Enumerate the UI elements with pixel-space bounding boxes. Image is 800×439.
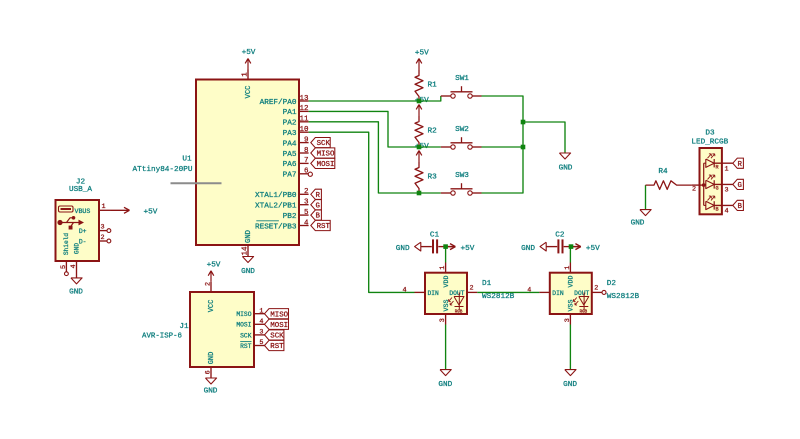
U1 pin 3 XTAL2/PB1 bbox=[255, 199, 309, 211]
svg-text:G: G bbox=[316, 202, 320, 210]
J2 pin 2 D- bbox=[79, 234, 111, 246]
U1 pin 6 PA7 bbox=[283, 168, 309, 180]
U1 pin 11 PA2 bbox=[283, 116, 309, 128]
svg-text:1: 1 bbox=[101, 203, 105, 211]
J1 pin 1 MISO bbox=[236, 307, 264, 318]
D1 pin 4 DIN bbox=[402, 286, 439, 297]
U1 pin 12 PA1 bbox=[283, 105, 309, 117]
chip U1 value ATtiny84-20PU bbox=[133, 166, 193, 174]
svg-text:B: B bbox=[738, 203, 743, 211]
svg-text:PA5: PA5 bbox=[283, 151, 297, 159]
D1 pin 3 VSS bbox=[439, 300, 450, 325]
svg-text:+5V: +5V bbox=[586, 245, 600, 253]
svg-text:+5V: +5V bbox=[207, 262, 221, 270]
svg-text:2: 2 bbox=[304, 188, 309, 196]
connector J1 body bbox=[190, 292, 254, 367]
junction C1 / VDD bbox=[443, 244, 448, 249]
svg-text:1: 1 bbox=[259, 307, 263, 315]
U1 pin 1 VCC bbox=[242, 70, 254, 99]
wire R1 node to SW1 (jog) bbox=[419, 96, 441, 101]
U1 pin 14 GND bbox=[242, 230, 254, 256]
power +5V right of C2 bbox=[571, 244, 600, 254]
J2 pin 5 Shield bbox=[60, 233, 70, 276]
J1 pin 5 RST bbox=[240, 339, 264, 350]
wire PA0 to R1 node bbox=[309, 100, 419, 102]
wire bus to GND bbox=[523, 122, 565, 153]
junction R3/PA2 node bbox=[417, 191, 422, 196]
svg-text:MOSI: MOSI bbox=[236, 322, 251, 329]
svg-text:DOUT: DOUT bbox=[574, 290, 589, 297]
svg-text:RST: RST bbox=[270, 343, 284, 351]
power +5V at U1 VCC bbox=[242, 49, 256, 70]
svg-text:D3: D3 bbox=[705, 129, 715, 137]
svg-text:PA4: PA4 bbox=[283, 140, 297, 148]
svg-text:3: 3 bbox=[304, 199, 309, 207]
D2 pin 2 DOUT bbox=[574, 285, 602, 297]
D1 pin 2 DOUT bbox=[449, 285, 477, 297]
wire R2 node to SW2 bbox=[419, 146, 441, 148]
J1 reference label bbox=[179, 323, 189, 331]
svg-text:1: 1 bbox=[724, 166, 728, 174]
svg-text:GND: GND bbox=[208, 352, 216, 365]
J2 value USB_A bbox=[69, 186, 92, 194]
D1 reference label bbox=[482, 280, 492, 288]
svg-text:D+: D+ bbox=[79, 228, 87, 235]
global label MOSI at J1 bbox=[265, 319, 289, 330]
svg-text:R: R bbox=[738, 161, 743, 169]
U1 pin 2 XTAL1/PB0 bbox=[255, 188, 309, 200]
svg-text:RST: RST bbox=[240, 343, 252, 350]
J1 pin 6 GND bbox=[205, 352, 217, 378]
svg-text:R: R bbox=[316, 192, 321, 200]
svg-text:MISO: MISO bbox=[317, 151, 335, 159]
svg-text:11: 11 bbox=[299, 116, 309, 124]
power +5V right of C1 bbox=[446, 244, 475, 254]
ground at U1 bbox=[241, 257, 255, 277]
svg-text:LED_RCGB: LED_RCGB bbox=[691, 139, 728, 147]
svg-text:R2: R2 bbox=[428, 127, 438, 135]
svg-text:2: 2 bbox=[469, 285, 473, 293]
switch SW1 bbox=[441, 75, 482, 98]
svg-text:+5V: +5V bbox=[242, 49, 256, 57]
wire VSS D2 to ground bbox=[569, 325, 571, 370]
svg-text:AREF/PA0: AREF/PA0 bbox=[260, 99, 297, 107]
wire VDD D1 bbox=[445, 247, 447, 263]
svg-text:VBUS: VBUS bbox=[75, 208, 91, 215]
svg-text:GND: GND bbox=[521, 245, 535, 253]
wire PA2 to R3 node bbox=[309, 122, 419, 193]
svg-text:6: 6 bbox=[205, 370, 213, 374]
svg-text:PB2: PB2 bbox=[283, 213, 297, 221]
svg-text:GND: GND bbox=[74, 243, 81, 254]
svg-text:AVR-ISP-6: AVR-ISP-6 bbox=[142, 332, 182, 340]
resistor R1 bbox=[415, 70, 437, 101]
D2 pin 1 VDD bbox=[564, 263, 575, 288]
svg-text:U1: U1 bbox=[182, 156, 192, 164]
svg-text:J1: J1 bbox=[179, 323, 189, 331]
svg-text:GND: GND bbox=[245, 230, 253, 243]
global label RST at J1 bbox=[265, 340, 285, 351]
D2 value WS2812B bbox=[607, 293, 640, 301]
power +5V above R2 bbox=[415, 97, 429, 116]
D3 reference label bbox=[705, 129, 715, 137]
global label MISO at J1 bbox=[265, 309, 289, 320]
svg-text:D1: D1 bbox=[482, 280, 492, 288]
global label G bbox=[311, 200, 322, 211]
wire C1 to +5V junction bbox=[438, 246, 452, 248]
ground label left of C2 bbox=[521, 242, 557, 253]
capacitor C2 bbox=[555, 231, 565, 253]
LED D2 body bbox=[550, 273, 592, 314]
svg-text:B: B bbox=[316, 213, 321, 221]
global label B at D3 bbox=[733, 200, 744, 211]
capacitor C1 bbox=[430, 231, 440, 253]
D1 LED icon bbox=[449, 293, 464, 315]
svg-text:DIN: DIN bbox=[552, 290, 564, 297]
USB plug icon bbox=[59, 206, 74, 212]
D2 reference label bbox=[607, 280, 617, 288]
wire D1 DOUT to D2 DIN bbox=[477, 291, 539, 293]
U1 pin 8 PA5 bbox=[283, 147, 309, 159]
svg-text:XTAL1/PB0: XTAL1/PB0 bbox=[255, 192, 297, 200]
svg-text:GND: GND bbox=[241, 268, 255, 276]
svg-text:GND: GND bbox=[438, 381, 452, 389]
D3 LED R bbox=[704, 154, 733, 174]
svg-text:SCK: SCK bbox=[270, 333, 284, 341]
svg-text:GND: GND bbox=[204, 388, 218, 396]
svg-text:MISO: MISO bbox=[236, 311, 251, 318]
svg-text:PA2: PA2 bbox=[283, 120, 297, 128]
D2 pin 4 DIN bbox=[527, 286, 564, 297]
svg-text:GND: GND bbox=[563, 381, 577, 389]
ground at R4 bbox=[631, 210, 652, 228]
global label MISO bbox=[311, 148, 335, 159]
global label SCK at J1 bbox=[265, 330, 285, 341]
no-connect circle pin 6 PA7 bbox=[308, 172, 312, 176]
svg-text:8: 8 bbox=[304, 147, 309, 155]
U1 pin 5 PB2 bbox=[283, 209, 309, 221]
svg-text:5: 5 bbox=[304, 209, 309, 217]
D2 LED icon bbox=[573, 293, 588, 315]
junction R1/PA0 node bbox=[417, 99, 422, 104]
switch SW3 bbox=[441, 172, 482, 195]
wire VSS D1 to ground bbox=[445, 325, 447, 370]
svg-text:MISO: MISO bbox=[270, 311, 288, 319]
svg-text:13: 13 bbox=[299, 95, 309, 103]
svg-text:G: G bbox=[715, 186, 718, 192]
svg-text:14: 14 bbox=[242, 246, 250, 256]
svg-text:SW1: SW1 bbox=[455, 75, 469, 83]
svg-text:4: 4 bbox=[259, 318, 263, 326]
svg-text:RST: RST bbox=[317, 223, 331, 231]
chip U1 reference label bbox=[182, 156, 192, 164]
wire VDD D2 bbox=[569, 247, 571, 263]
svg-text:D2: D2 bbox=[607, 280, 617, 288]
J2 pin 1 VBUS bbox=[75, 203, 112, 215]
svg-text:9: 9 bbox=[304, 136, 309, 144]
power +5V at VBUS bbox=[111, 207, 158, 216]
U1 pin 13 AREF/PA0 bbox=[260, 95, 309, 107]
LED D1 body bbox=[425, 273, 467, 314]
svg-text:2: 2 bbox=[100, 234, 104, 242]
J1 pin 3 SCK bbox=[240, 329, 264, 340]
svg-text:VCC: VCC bbox=[208, 300, 216, 313]
ground at D2 bbox=[563, 370, 577, 390]
svg-text:GND: GND bbox=[69, 288, 83, 296]
junction bus/SW2 bbox=[521, 145, 526, 150]
svg-text:PA3: PA3 bbox=[283, 130, 297, 138]
svg-text:+5V: +5V bbox=[461, 245, 475, 253]
junction C2 / VDD bbox=[569, 244, 574, 249]
svg-text:3: 3 bbox=[259, 329, 263, 337]
junction bus/GND tap bbox=[521, 120, 526, 125]
svg-text:SCK: SCK bbox=[317, 140, 331, 148]
svg-text:MOSI: MOSI bbox=[270, 322, 288, 330]
svg-text:RESET/PB3: RESET/PB3 bbox=[255, 223, 297, 231]
svg-text:2: 2 bbox=[692, 185, 696, 193]
ground at D1 bbox=[438, 370, 452, 390]
svg-text:G: G bbox=[738, 182, 742, 190]
LED D3 body bbox=[700, 148, 722, 214]
global label RST bbox=[311, 220, 331, 231]
svg-text:VDD: VDD bbox=[443, 276, 450, 288]
global label R bbox=[311, 189, 322, 200]
resistor R3 bbox=[415, 162, 437, 193]
ground label left of C1 bbox=[396, 242, 432, 253]
svg-text:Shield: Shield bbox=[63, 233, 70, 256]
svg-text:4: 4 bbox=[527, 286, 531, 294]
D3 value LED_RCGB bbox=[691, 139, 728, 147]
D1 value WS2812B bbox=[482, 293, 515, 301]
J2 pin 4 GND bbox=[70, 243, 81, 278]
resistor R2 bbox=[415, 116, 437, 147]
global label B bbox=[311, 210, 322, 221]
svg-text:1: 1 bbox=[242, 72, 250, 77]
switch SW2 bbox=[441, 126, 482, 149]
global label G at D3 bbox=[733, 179, 744, 190]
global label SCK bbox=[311, 138, 331, 149]
svg-text:3: 3 bbox=[100, 223, 104, 231]
ground at J2 bbox=[69, 278, 83, 297]
wire C2 to +5V junction bbox=[564, 246, 578, 248]
svg-text:7: 7 bbox=[304, 157, 309, 165]
svg-text:2: 2 bbox=[205, 282, 213, 286]
svg-text:+5V: +5V bbox=[144, 209, 158, 217]
svg-text:DOUT: DOUT bbox=[449, 290, 464, 297]
wire PA1 to R2 node bbox=[309, 111, 419, 147]
wire R4 to ground bbox=[645, 185, 647, 209]
svg-text:WS2812B: WS2812B bbox=[607, 293, 640, 301]
junction R2/PA1 node bbox=[417, 145, 422, 150]
svg-text:3: 3 bbox=[564, 318, 572, 322]
svg-text:C2: C2 bbox=[555, 231, 565, 239]
svg-text:PA7: PA7 bbox=[283, 172, 297, 180]
U1 pin 7 PA6 bbox=[283, 157, 309, 169]
D1 pin 1 VDD bbox=[439, 263, 450, 288]
svg-text:3: 3 bbox=[439, 318, 447, 322]
svg-text:SW2: SW2 bbox=[455, 126, 469, 134]
global label MOSI bbox=[311, 158, 335, 169]
svg-text:PA1: PA1 bbox=[283, 109, 297, 117]
svg-text:XTAL2/PB1: XTAL2/PB1 bbox=[255, 203, 297, 211]
svg-text:USB_A: USB_A bbox=[69, 186, 92, 194]
svg-text:VCC: VCC bbox=[245, 85, 253, 99]
svg-text:DIN: DIN bbox=[428, 290, 440, 297]
svg-text:PA6: PA6 bbox=[283, 161, 297, 169]
svg-text:SW3: SW3 bbox=[455, 172, 469, 180]
power +5V at J1 bbox=[207, 262, 221, 282]
svg-text:RGB: RGB bbox=[580, 311, 588, 315]
svg-text:R3: R3 bbox=[428, 173, 438, 181]
D3 anode bus bbox=[703, 163, 705, 205]
svg-text:5: 5 bbox=[60, 265, 68, 269]
svg-text:GND: GND bbox=[559, 165, 573, 173]
resistor R4 bbox=[646, 168, 692, 189]
D2 pin 3 VSS bbox=[564, 300, 575, 325]
svg-text:1: 1 bbox=[439, 266, 447, 270]
U1 pin 10 PA3 bbox=[283, 126, 309, 138]
chip U1 body bbox=[196, 80, 299, 246]
svg-text:WS2812B: WS2812B bbox=[482, 293, 515, 301]
no-connect circle D2 DOUT bbox=[602, 290, 606, 294]
svg-text:GND: GND bbox=[631, 219, 645, 227]
svg-text:RGB: RGB bbox=[455, 311, 463, 315]
J2 pin 3 D+ bbox=[79, 223, 111, 235]
svg-text:R: R bbox=[715, 165, 718, 171]
svg-text:2: 2 bbox=[594, 285, 598, 293]
wire R3 node to SW3 bbox=[419, 192, 441, 194]
wire PA3 to D1 DIN bbox=[309, 132, 415, 292]
svg-text:4: 4 bbox=[724, 208, 728, 216]
wire switch outputs bus bbox=[482, 96, 524, 193]
svg-text:VDD: VDD bbox=[568, 276, 575, 288]
D3 pin 2 common anode bbox=[692, 183, 706, 193]
global label R at D3 bbox=[733, 158, 744, 169]
svg-text:12: 12 bbox=[299, 105, 308, 113]
svg-text:5: 5 bbox=[259, 339, 263, 347]
connector J2 body bbox=[56, 200, 100, 261]
ground at J1 bbox=[204, 378, 218, 396]
svg-text:SCK: SCK bbox=[240, 332, 252, 339]
svg-text:4: 4 bbox=[402, 286, 406, 294]
svg-text:+5V: +5V bbox=[415, 50, 429, 58]
J1 value AVR-ISP-6 bbox=[142, 332, 182, 340]
svg-text:4: 4 bbox=[70, 264, 78, 268]
grey cursor line bbox=[171, 182, 222, 184]
svg-text:3: 3 bbox=[724, 187, 728, 195]
D3 LED B bbox=[704, 196, 733, 216]
J1 pin 2 VCC bbox=[205, 282, 217, 313]
svg-text:GND: GND bbox=[396, 245, 410, 253]
svg-text:4: 4 bbox=[304, 219, 309, 227]
power +5V above R1 bbox=[415, 50, 429, 70]
svg-text:R1: R1 bbox=[428, 81, 438, 89]
U1 pin 4 RESET/PB3 bbox=[255, 219, 309, 231]
USB trident icon bbox=[57, 216, 84, 230]
U1 pin 9 PA4 bbox=[283, 136, 309, 148]
svg-text:10: 10 bbox=[299, 126, 309, 134]
svg-text:B: B bbox=[715, 207, 718, 213]
J1 pin 4 MOSI bbox=[236, 318, 264, 329]
svg-text:MOSI: MOSI bbox=[317, 161, 335, 169]
ground at switches bbox=[559, 153, 573, 173]
power +5V above R3 bbox=[415, 143, 429, 162]
svg-text:ATtiny84-20PU: ATtiny84-20PU bbox=[133, 166, 193, 174]
J2 reference label bbox=[76, 179, 86, 187]
D3 LED G bbox=[704, 175, 733, 195]
svg-text:1: 1 bbox=[564, 266, 572, 270]
svg-text:R4: R4 bbox=[658, 168, 668, 176]
svg-text:C1: C1 bbox=[430, 231, 440, 239]
